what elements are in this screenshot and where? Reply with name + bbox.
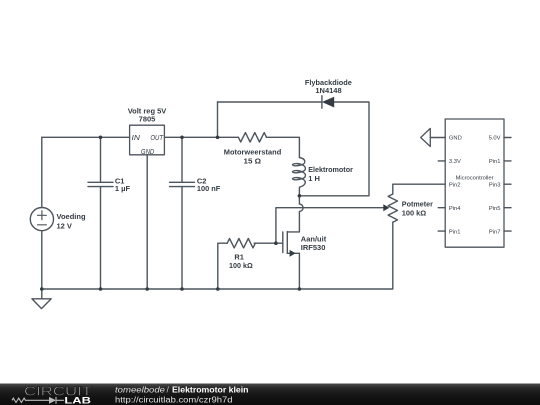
svg-text:IN: IN <box>132 133 141 142</box>
plus sign inside source <box>38 211 47 220</box>
svg-text:Voeding: Voeding <box>57 212 86 221</box>
junction dot rail source <box>40 287 44 291</box>
svg-text:7805: 7805 <box>139 115 156 124</box>
wire flyback loop left vertical <box>217 102 219 137</box>
wire gate to R1 <box>254 242 283 244</box>
svg-text:GND: GND <box>449 136 462 142</box>
wire potmeter top to MCU Pin2 <box>393 184 445 194</box>
wire MCU GND stub <box>430 137 445 139</box>
wire resistor to corner <box>267 137 300 157</box>
wire potmeter bottom to rail <box>42 222 393 289</box>
wire drain vertical with hop over wiper wire <box>299 196 303 232</box>
junction dot rail R1 <box>216 287 220 291</box>
wire R1 left lead down to rail <box>218 243 227 289</box>
MCU right stub 5.0V <box>504 137 511 139</box>
junction dot C1 top <box>99 136 103 140</box>
voltage regulator U1 7805 box <box>130 125 165 155</box>
svg-text:5.0V: 5.0V <box>489 136 501 142</box>
junction dot C2 top <box>180 136 184 140</box>
MOSFET Q1 channel bar <box>286 232 288 254</box>
MCU right stub Pin7 <box>504 230 511 232</box>
diode D1 triangle <box>322 97 334 108</box>
MOSFET Q1 source lead <box>287 252 299 254</box>
wire 7805 GND pin to rail <box>146 155 148 289</box>
svg-text:12 V: 12 V <box>57 221 72 230</box>
svg-text:Pin3: Pin3 <box>489 182 501 188</box>
svg-text:R1: R1 <box>234 252 244 261</box>
junction dot rail C1 <box>99 287 103 291</box>
svg-text:Pin7: Pin7 <box>489 229 501 235</box>
footer black bar <box>0 384 540 405</box>
svg-text:Pin1: Pin1 <box>449 229 461 235</box>
voltage source Voeding 12V circle <box>30 208 53 231</box>
svg-text:Elektromotor klein: Elektromotor klein <box>172 385 249 395</box>
svg-text:1 µF: 1 µF <box>115 184 131 193</box>
ground triangle <box>32 299 51 309</box>
resistor R1 100k zigzag <box>227 239 255 248</box>
capacitor C2 bottom wire <box>181 187 183 289</box>
svg-text:Pin2: Pin2 <box>449 182 461 188</box>
wire wiper horizontal to potmeter <box>276 208 384 244</box>
resistor Motorweerstand 15 Ohm <box>238 133 266 142</box>
junction dot gate node <box>274 241 278 245</box>
ground stem <box>41 289 43 299</box>
svg-text:IRF530: IRF530 <box>301 243 326 252</box>
potmeter zigzag <box>388 194 397 222</box>
capacitor C2 plates <box>170 182 195 186</box>
MCU GND arrow pointer <box>421 128 431 146</box>
svg-text:15 Ω: 15 Ω <box>244 157 262 166</box>
microcontroller box <box>445 119 504 247</box>
svg-text:http://circuitlab.com/czr9h7d: http://circuitlab.com/czr9h7d <box>115 395 233 405</box>
wire source to rail <box>298 253 300 289</box>
capacitor C1 plates <box>88 182 113 186</box>
MOSFET Q1 drain lead <box>287 231 299 233</box>
svg-text:3.3V: 3.3V <box>449 159 461 165</box>
wire flyback loop top left segment <box>218 101 322 103</box>
svg-text:Potmeter: Potmeter <box>402 199 433 208</box>
capacitor C1 top wire <box>100 137 102 182</box>
potmeter wiper arrow <box>383 204 389 211</box>
svg-text:LAB: LAB <box>64 396 91 405</box>
wire flyback loop top right segment <box>299 102 369 196</box>
inductor Elektromotor 1H <box>293 158 306 196</box>
logo wire squiggle resistor <box>12 398 49 402</box>
MCU right stub Pin5 <box>504 207 511 209</box>
svg-text:Motorweerstand: Motorweerstand <box>224 148 282 157</box>
wire source bottom to rail <box>41 231 43 289</box>
MCU left stub 3.3V <box>438 160 445 162</box>
logo diode symbol <box>49 397 56 404</box>
svg-text:GND: GND <box>141 147 155 156</box>
svg-text:OUT: OUT <box>150 133 163 142</box>
MCU right stub Pin1 <box>504 160 511 162</box>
junction dot rail MOSFET source <box>298 287 302 291</box>
svg-text:1 H: 1 H <box>308 174 320 183</box>
svg-text:Elektromotor: Elektromotor <box>308 165 353 174</box>
MCU left stub Pin1 <box>438 230 445 232</box>
MCU left stub Pin4 <box>438 207 445 209</box>
MCU right stub Pin3 <box>504 183 511 185</box>
wire top rail left (IN side) <box>42 136 130 138</box>
svg-text:Pin4: Pin4 <box>449 206 461 212</box>
junction dot rail C2 <box>180 287 184 291</box>
junction dot rail 7805 <box>145 287 149 291</box>
svg-text:100 nF: 100 nF <box>197 184 221 193</box>
svg-text:Pin1: Pin1 <box>489 159 501 165</box>
minus sign inside source <box>38 224 47 226</box>
MOSFET source arrow <box>290 250 296 257</box>
svg-text:tomeelbode: tomeelbode <box>115 385 165 395</box>
MOSFET Q1 gate bar <box>282 232 284 253</box>
svg-text:1N4148: 1N4148 <box>315 86 341 95</box>
junction dot loop left <box>216 136 220 140</box>
wire left vertical from rail to source top <box>41 137 43 207</box>
svg-text:100 kΩ: 100 kΩ <box>229 261 253 270</box>
wire OUT to resistor <box>164 136 238 138</box>
svg-text:Microcontroller: Microcontroller <box>456 176 494 182</box>
svg-text:Pin5: Pin5 <box>489 206 501 212</box>
svg-text:100 kΩ: 100 kΩ <box>402 208 426 217</box>
junction dot motor bottom <box>298 194 302 198</box>
capacitor C1 bottom wire <box>100 187 102 289</box>
diode D1 cathode bar <box>321 96 323 108</box>
capacitor C2 top wire <box>181 137 183 182</box>
